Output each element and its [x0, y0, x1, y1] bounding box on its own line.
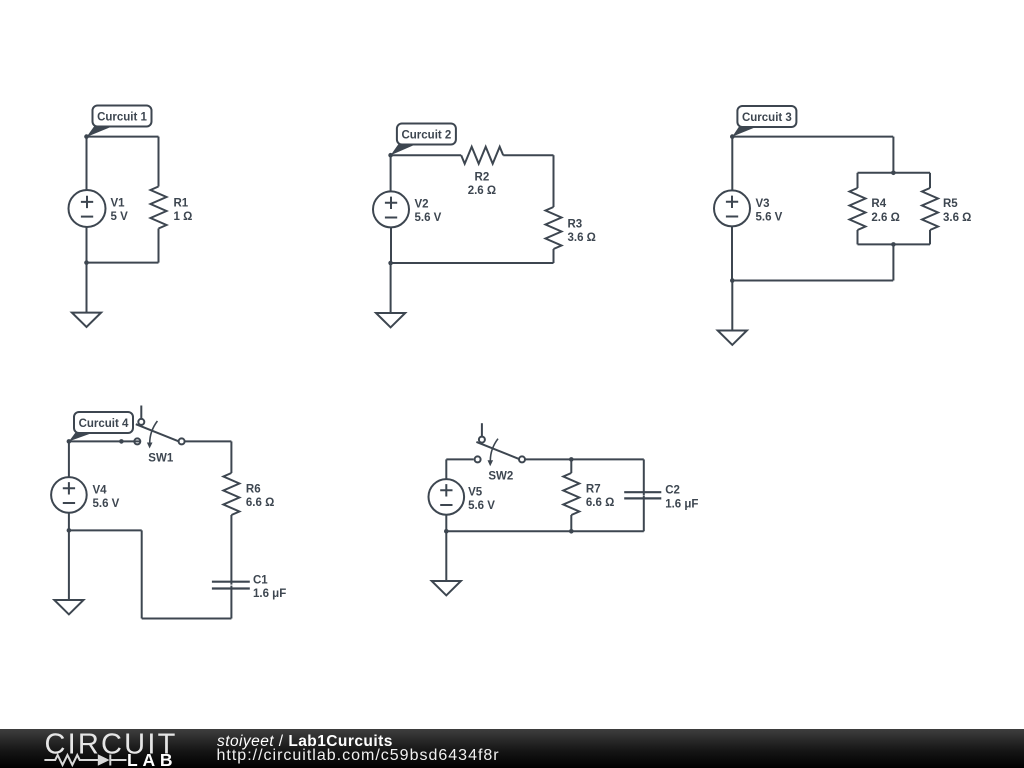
svg-text:5.6 V: 5.6 V	[468, 500, 495, 512]
node bottom-left c2	[388, 261, 393, 266]
node top-left c3	[730, 134, 735, 139]
svg-text:R5: R5	[943, 198, 958, 210]
resistor R7	[563, 473, 579, 515]
label Curcuit 1	[87, 106, 152, 138]
wire bottom c5	[446, 530, 644, 532]
wire R4 bottom lead	[857, 230, 859, 244]
wire right upper c2	[553, 155, 555, 207]
svg-text:3.6 Ω: 3.6 Ω	[568, 232, 596, 244]
svg-text:V4: V4	[93, 484, 108, 496]
switch SW1	[134, 406, 184, 449]
node parallel bottom c3	[891, 242, 896, 247]
svg-text:5 V: 5 V	[111, 211, 129, 223]
ground c4	[54, 530, 83, 614]
voltage source V2	[373, 191, 409, 227]
svg-text:R2: R2	[475, 172, 490, 184]
voltage source V1	[69, 190, 106, 227]
wire C2 top lead	[643, 459, 645, 495]
svg-text:6.6 Ω: 6.6 Ω	[246, 497, 274, 509]
svg-text:Curcuit 1: Curcuit 1	[97, 112, 147, 124]
footer bar	[0, 729, 1024, 768]
svg-text:5.6 V: 5.6 V	[415, 212, 442, 224]
wire down from parallel c3	[892, 244, 894, 280]
svg-text:Curcuit 4: Curcuit 4	[79, 418, 129, 430]
ground c5	[432, 531, 461, 595]
svg-text:1.6 μF: 1.6 μF	[253, 588, 286, 600]
ground c1	[72, 263, 101, 327]
svg-text:C2: C2	[665, 485, 680, 497]
node R7 bottom c5	[569, 529, 574, 534]
svg-text:2.6 Ω: 2.6 Ω	[468, 185, 496, 197]
wire R7 bottom lead	[570, 515, 572, 531]
node top-left c1	[84, 134, 89, 139]
wire C2 bottom lead	[643, 496, 645, 532]
wire right upper c4	[230, 441, 232, 473]
capacitor C2	[624, 492, 661, 498]
wire parallel top bar c3	[858, 172, 931, 174]
wire bottom c3	[732, 280, 893, 282]
wire right mid c4	[230, 515, 232, 585]
svg-text:Curcuit 2: Curcuit 2	[401, 130, 451, 142]
wire top-right c2	[503, 154, 553, 156]
node on wire c4	[119, 439, 124, 444]
wire source bottom lead c5	[445, 515, 447, 532]
wire right lower c2	[553, 249, 555, 263]
wire bottom c2	[391, 262, 554, 264]
svg-text:R1: R1	[174, 198, 189, 210]
wire bottom c4	[142, 618, 232, 620]
resistor R4	[850, 188, 866, 230]
voltage source V3	[714, 190, 750, 226]
CircuitLab logo	[0, 729, 200, 768]
svg-text:LAB: LAB	[127, 750, 177, 768]
svg-text:3.6 Ω: 3.6 Ω	[943, 212, 971, 224]
node R7 top c5	[569, 457, 574, 462]
node top-left c4	[67, 439, 72, 444]
resistor R3	[546, 207, 562, 249]
node bottom-left c1	[84, 260, 89, 265]
switch SW2	[475, 423, 525, 466]
svg-text:5.6 V: 5.6 V	[756, 211, 783, 223]
label Curcuit 2	[391, 124, 456, 156]
svg-text:R6: R6	[246, 484, 261, 496]
svg-text:V1: V1	[111, 198, 126, 210]
wire bottom c1	[87, 262, 159, 264]
svg-text:5.6 V: 5.6 V	[93, 498, 120, 510]
svg-text:V2: V2	[415, 199, 429, 211]
label Curcuit 4	[69, 412, 133, 441]
resistor R2	[461, 147, 503, 164]
wire top c1	[87, 136, 159, 138]
svg-text:SW1: SW1	[148, 453, 174, 465]
svg-text:R7: R7	[586, 484, 601, 496]
svg-text:V3: V3	[756, 198, 770, 210]
wire R5 bottom lead	[929, 230, 931, 244]
wire R4 top lead	[857, 173, 859, 188]
svg-text:V5: V5	[468, 486, 483, 498]
wire source bottom lead c4	[68, 513, 70, 531]
wire top-left c2	[391, 154, 462, 156]
node bottom-left c5	[444, 529, 449, 534]
svg-text:Curcuit 3: Curcuit 3	[742, 112, 792, 124]
wire R5 top lead	[929, 173, 931, 188]
resistor R1	[151, 187, 167, 229]
svg-text:1.6 μF: 1.6 μF	[665, 499, 698, 511]
resistor R6	[223, 473, 239, 515]
ground c3	[718, 281, 747, 345]
wire down to parallel c3	[892, 137, 894, 173]
node bottom-left c4	[67, 528, 72, 533]
wire cap bottom lead c4	[230, 586, 232, 619]
voltage source V5	[429, 479, 465, 515]
wire top-left c4	[69, 440, 140, 442]
svg-text:SW2: SW2	[488, 471, 513, 483]
wire top-left c5	[446, 458, 473, 460]
resistor R5	[922, 188, 938, 230]
wire step horizontal c4	[69, 529, 142, 531]
node top-left c2	[388, 153, 393, 158]
wire source top lead c1	[86, 137, 88, 190]
wire top c3	[732, 136, 893, 138]
wire source bottom lead c3	[731, 226, 733, 280]
svg-text:6.6 Ω: 6.6 Ω	[586, 497, 614, 509]
node parallel top c3	[891, 171, 896, 176]
wire step vertical c4	[141, 530, 143, 618]
svg-text:2.6 Ω: 2.6 Ω	[871, 212, 899, 224]
label Curcuit 3	[732, 106, 796, 137]
wire switch to right c5	[525, 458, 644, 460]
svg-text:R3: R3	[568, 219, 583, 231]
svg-text:R4: R4	[871, 198, 886, 210]
wire right upper c1	[158, 137, 160, 187]
wire source top lead c4	[68, 441, 70, 477]
wire source top lead c2	[390, 155, 392, 191]
node bottom-left c3	[730, 278, 735, 283]
wire R7 top lead	[570, 459, 572, 473]
wire right lower c1	[158, 229, 160, 263]
wire source bottom lead c1	[86, 227, 88, 263]
svg-text:1 Ω: 1 Ω	[174, 211, 193, 223]
wire parallel bottom bar c3	[858, 243, 931, 245]
capacitor C1	[212, 582, 250, 589]
voltage source V4	[51, 477, 87, 513]
wire source bottom lead c2	[390, 227, 392, 263]
svg-text:C1: C1	[253, 574, 268, 586]
wire source top lead c5	[445, 459, 447, 479]
wire switch to corner c4	[185, 440, 232, 442]
wire source top lead c3	[731, 137, 733, 191]
ground c2	[376, 263, 405, 327]
